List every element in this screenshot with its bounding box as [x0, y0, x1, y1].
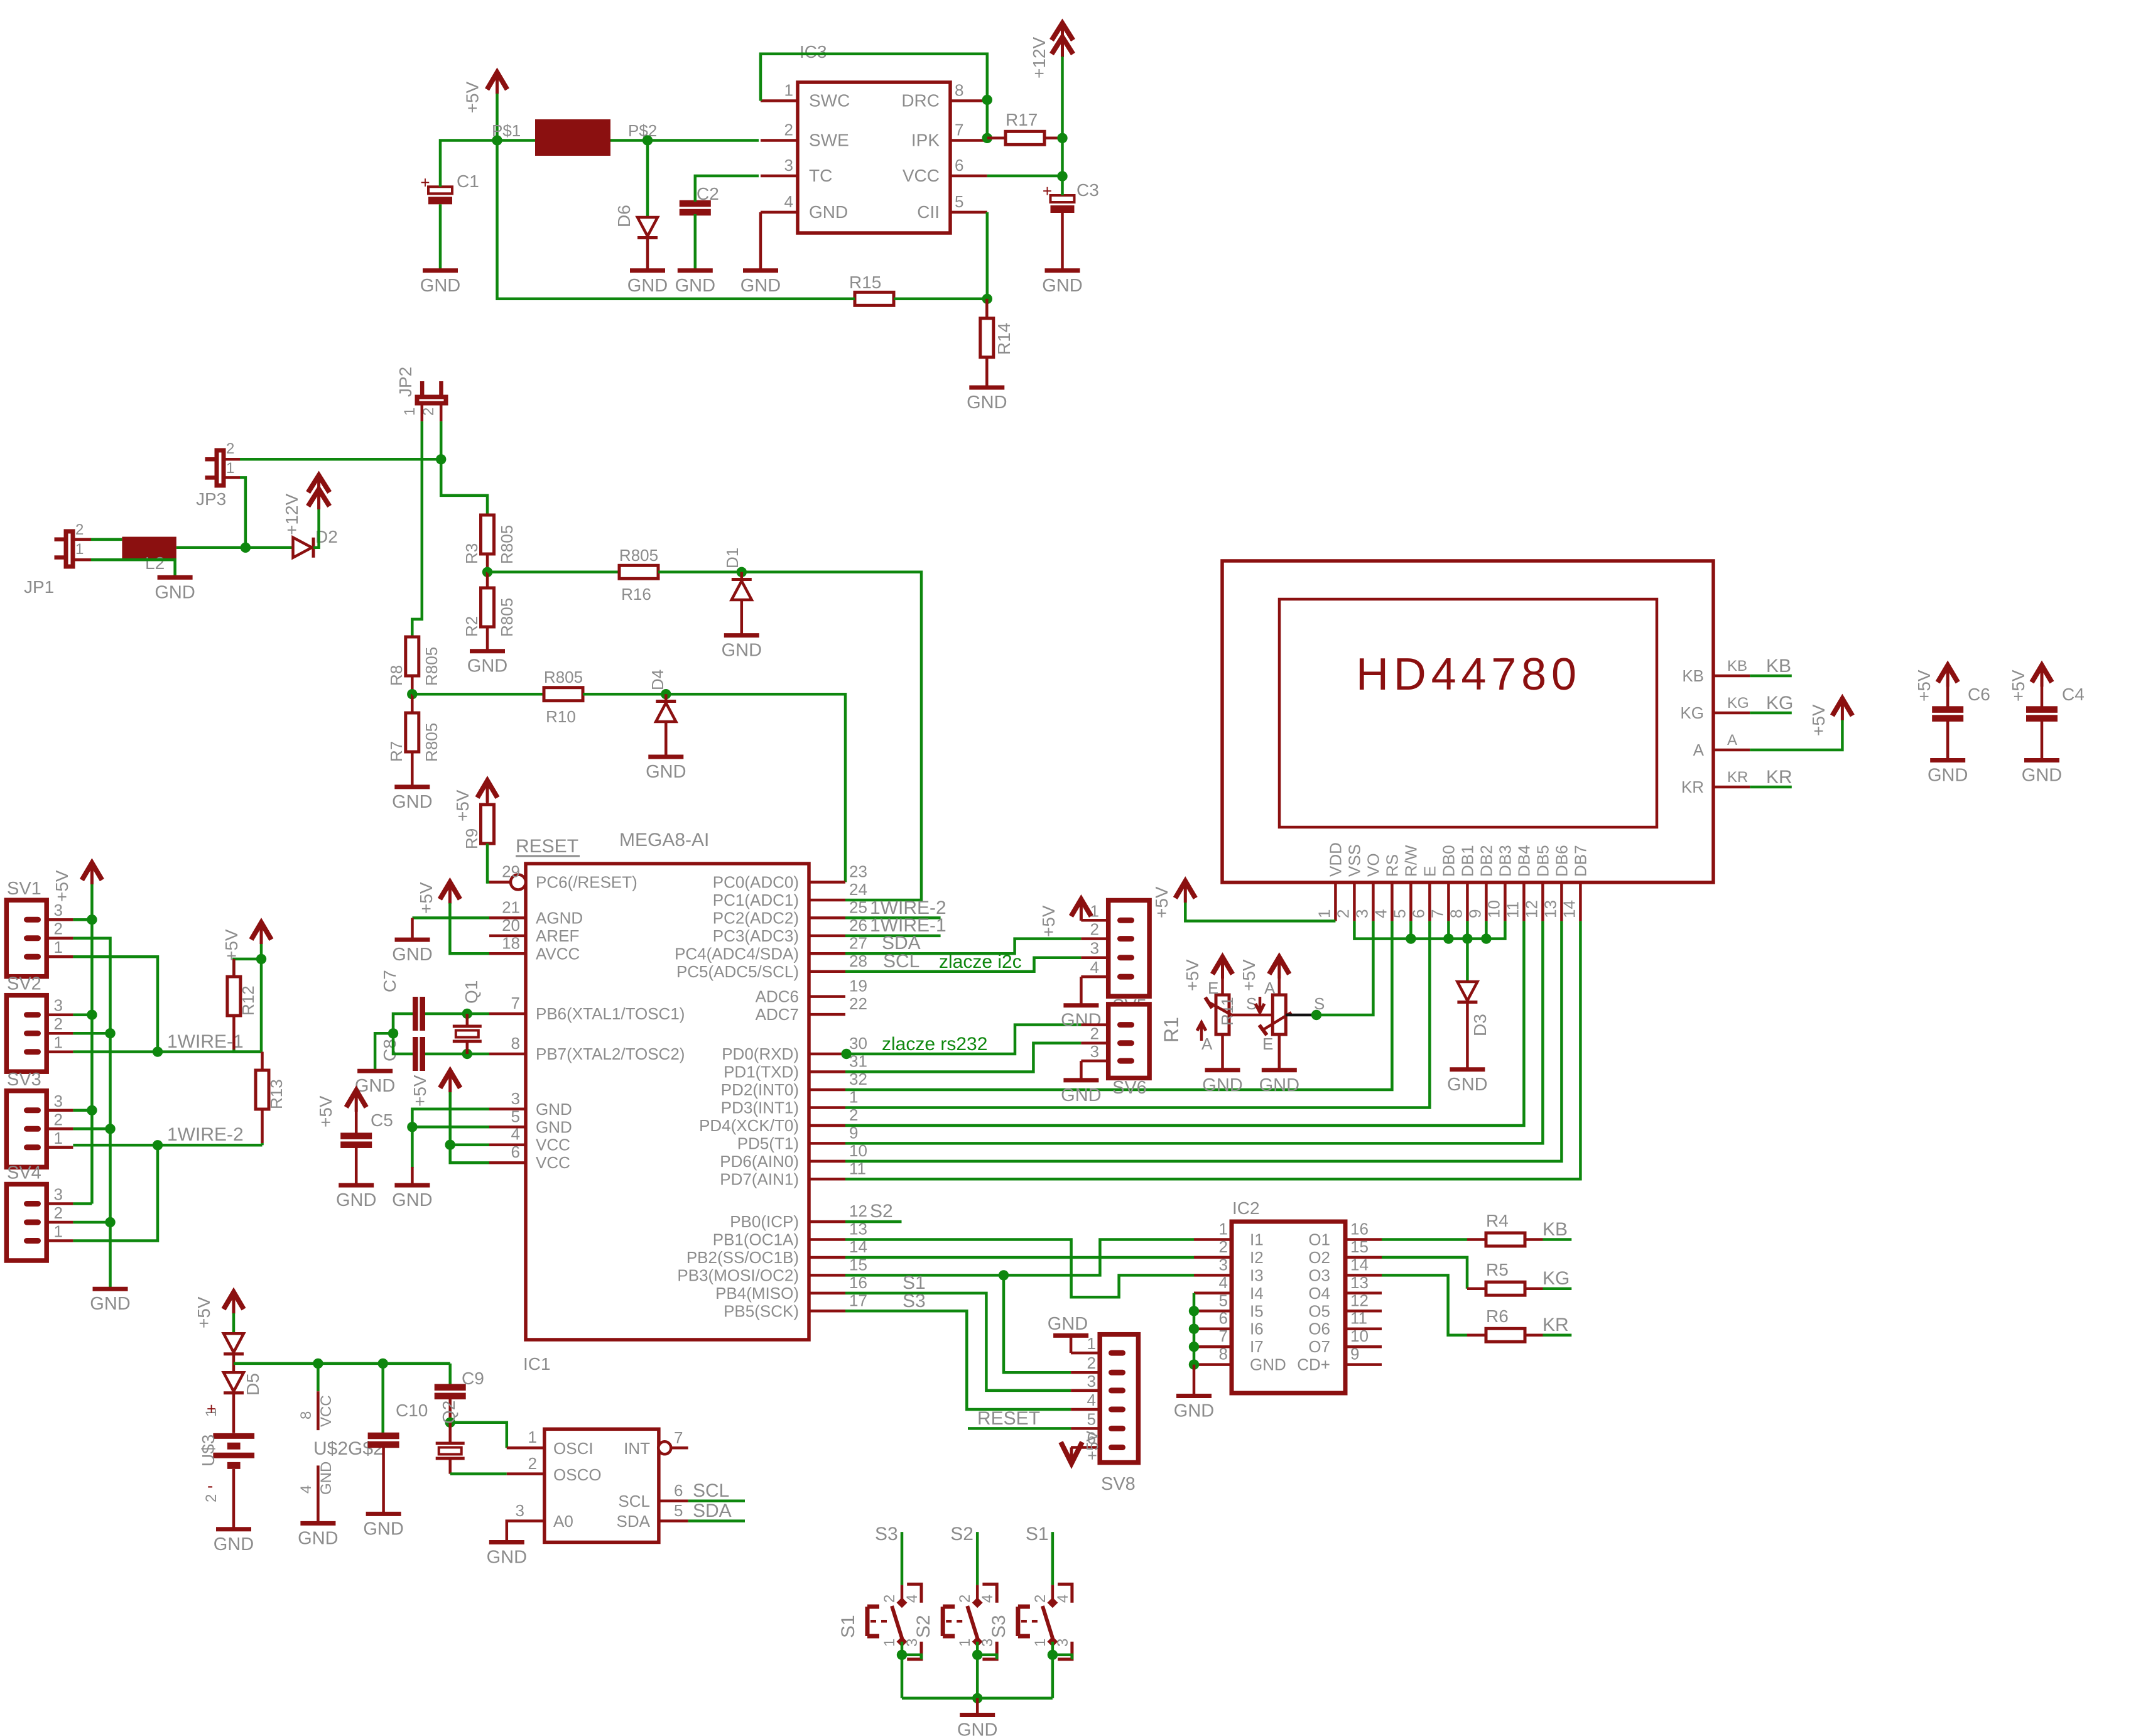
+5V arrow for AVCC — [448, 882, 452, 904]
diode D4 (cathode up) — [664, 694, 668, 702]
wire +5V to AVCC pin 18 — [450, 903, 489, 953]
svg-text:PB4(MISO): PB4(MISO) — [715, 1284, 799, 1303]
wire rail to C3 — [1061, 176, 1064, 195]
svg-text:DB0: DB0 — [1439, 845, 1458, 877]
switch S1 pin 3 bracket — [907, 1642, 921, 1659]
MEGA8 pin 13 PB1(OC1A) — [809, 1238, 845, 1241]
switch S3 wire to bus — [1051, 1655, 1055, 1698]
wire PD3 pin 1 to LCD E — [845, 921, 1429, 1107]
inductor L2 (solid) — [122, 537, 176, 559]
IC IC3 (MC34063) body — [798, 82, 950, 233]
svg-text:5: 5 — [955, 192, 963, 211]
SV6 pin 2 — [1117, 1040, 1134, 1046]
ground below R1 — [1205, 1068, 1240, 1072]
svg-text:15: 15 — [1350, 1237, 1369, 1256]
IC2 pin 16 O1 — [1345, 1238, 1382, 1241]
wiper wire R1 to node (black segment) — [1232, 1014, 1272, 1017]
+5V arrow for LCD VDD — [1184, 881, 1187, 903]
svg-text:6: 6 — [511, 1142, 520, 1161]
svg-text:GND: GND — [467, 656, 507, 676]
resistor R7 (R805) — [406, 713, 419, 752]
svg-text:R8: R8 — [387, 665, 406, 686]
svg-text:R805: R805 — [544, 668, 583, 686]
resistor R4 — [1486, 1233, 1525, 1246]
net label KB at LCD — [1750, 675, 1792, 678]
svg-text:GND: GND — [967, 393, 1007, 413]
+5V arrow above D5 — [232, 1292, 236, 1313]
wire SV5 pin4 to GND — [1080, 977, 1083, 1004]
ground below R11 — [1262, 1068, 1297, 1072]
svg-text:4: 4 — [784, 192, 793, 211]
svg-text:A: A — [1727, 732, 1737, 749]
net label S2 at PB0 — [845, 1220, 902, 1223]
svg-text:R6: R6 — [1486, 1306, 1509, 1326]
wire SV1 pin1 to 1WIRE-1 — [73, 957, 158, 1051]
svg-text:I4: I4 — [1250, 1284, 1264, 1303]
net label KR at LCD — [1750, 786, 1792, 789]
node IC2 GND — [1189, 1359, 1199, 1369]
wire C8 right to PB7 — [425, 1053, 489, 1056]
diode D5b — [224, 1372, 244, 1393]
svg-text:KB: KB — [1727, 658, 1747, 675]
net label KR at R6 — [1525, 1334, 1543, 1337]
svg-text:5: 5 — [674, 1501, 683, 1520]
node D4 — [661, 689, 671, 699]
svg-text:25: 25 — [849, 898, 867, 916]
wire +5V rail SV pins 3 — [90, 884, 94, 1204]
svg-text:VCC: VCC — [536, 1153, 570, 1172]
node I6 — [1189, 1324, 1199, 1334]
wire C4 to GND — [2041, 720, 2044, 759]
svg-text:1: 1 — [54, 1222, 63, 1241]
MEGA8 pin 25 PC2(ADC2) — [809, 916, 845, 920]
svg-text:OSCI: OSCI — [553, 1439, 594, 1458]
svg-text:10: 10 — [1484, 900, 1503, 918]
S pin arrow at R11 — [1259, 997, 1262, 1011]
SV3 pin2 wire — [73, 1127, 110, 1131]
ground below SV rail — [93, 1287, 128, 1291]
wire D6 to GND — [646, 239, 649, 269]
capacitor C8 — [413, 1037, 418, 1071]
svg-text:JP3: JP3 — [196, 489, 226, 509]
wire D3 to GND — [1466, 1003, 1469, 1068]
node SV4 pin2 — [105, 1217, 115, 1227]
wire SV2 pin1 1WIRE-1 row — [73, 1050, 262, 1053]
svg-text:-: - — [207, 1476, 213, 1495]
JP2 pin leads — [421, 403, 424, 421]
svg-text:O7: O7 — [1308, 1337, 1330, 1356]
switch S1 wire to bus — [901, 1655, 904, 1698]
power +5V arrow (top left) — [496, 72, 499, 94]
svg-text:6: 6 — [1409, 909, 1428, 918]
svg-text:O6: O6 — [1308, 1320, 1330, 1338]
diode D3 — [1457, 982, 1477, 1002]
svg-text:GND: GND — [318, 1462, 335, 1495]
svg-text:2: 2 — [1090, 1024, 1099, 1043]
SV8 pin 4 — [1109, 1407, 1125, 1413]
svg-text:PD0(RXD): PD0(RXD) — [722, 1044, 799, 1063]
switch S1 lever — [892, 1606, 903, 1640]
node D5/supply — [234, 1362, 450, 1365]
svg-text:C7: C7 — [380, 970, 399, 992]
svg-text:GND: GND — [90, 1294, 130, 1314]
IC2 pin 9 CD+ — [1345, 1363, 1382, 1366]
svg-text:R13: R13 — [267, 1079, 286, 1109]
connector SV3 — [6, 1091, 46, 1168]
net label KB at R4 — [1525, 1238, 1543, 1241]
svg-text:24: 24 — [849, 880, 867, 899]
resistor R14 — [980, 318, 994, 357]
svg-text:KR: KR — [1727, 769, 1748, 786]
node P$1 — [492, 135, 502, 145]
switch S2 pin 2 — [976, 1585, 979, 1603]
jumper JP2 — [417, 397, 446, 403]
svg-text:+5V: +5V — [2009, 670, 2028, 702]
wire PD6 pin 10 to LCD DB6 — [845, 921, 1561, 1161]
svg-text:R4: R4 — [1486, 1211, 1509, 1230]
svg-text:KG: KG — [1727, 695, 1749, 712]
wire L2 to D2 — [176, 546, 293, 550]
svg-text:R805: R805 — [422, 647, 441, 686]
SV8 pin 3 — [1109, 1387, 1125, 1393]
trimmer R11 wiper arrow — [1264, 1012, 1291, 1029]
svg-text:PB3(MOSI/OC2): PB3(MOSI/OC2) — [677, 1266, 799, 1284]
svg-text:3: 3 — [54, 901, 63, 920]
IC2 pin 6 I6 — [1194, 1327, 1232, 1330]
connector SV1 — [6, 900, 46, 977]
MEGA8 pin 18 AVCC — [489, 952, 526, 955]
IC2 pin 13 O4 — [1345, 1292, 1382, 1295]
svg-text:GND: GND — [646, 762, 686, 782]
svg-text:SV2: SV2 — [7, 974, 41, 994]
switch S3 node — [1048, 1650, 1058, 1660]
LCD pin A — [1713, 749, 1750, 752]
wire node to R12 — [234, 959, 261, 977]
wire C3 to GND — [1061, 213, 1064, 269]
wire R1 to GND — [1221, 1034, 1224, 1068]
net label S1 at PB4 — [845, 1293, 1071, 1391]
wire pin 4 branch — [450, 1143, 489, 1146]
net label S3 at PB5 — [845, 1311, 1071, 1409]
wire pin 5 to rail — [412, 1126, 489, 1129]
svg-text:1: 1 — [401, 408, 418, 416]
IC3 pin 4 GND — [761, 211, 798, 214]
node C10 — [378, 1359, 388, 1369]
net label KG at R5 — [1525, 1287, 1543, 1290]
IC2 pin 12 O5 — [1345, 1310, 1382, 1313]
svg-text:R3: R3 — [462, 543, 481, 564]
JP3 pin leads — [224, 458, 240, 461]
svg-text:S1: S1 — [838, 1615, 859, 1638]
SV3 pin3 wire — [73, 1109, 92, 1112]
wire bus to GND — [976, 1698, 979, 1713]
svg-text:2: 2 — [784, 121, 793, 139]
svg-text:7: 7 — [674, 1428, 683, 1447]
svg-text:R/W: R/W — [1401, 845, 1420, 877]
svg-text:SDA: SDA — [693, 1500, 732, 1521]
svg-text:AGND: AGND — [536, 908, 583, 927]
MEGA8 pin 17 PB5(SCK) — [809, 1310, 845, 1313]
MEGA8 pin 11 PD7(AIN1) — [809, 1178, 845, 1181]
node SV3 pin3 — [87, 1105, 97, 1115]
svg-text:R7: R7 — [387, 741, 406, 762]
switch common bus — [902, 1697, 1053, 1700]
wire R2 to GND — [486, 627, 489, 649]
+5V arrow at SV5 pin 1 — [1080, 899, 1083, 921]
svg-text:GND: GND — [420, 276, 460, 296]
svg-text:PB5(SCK): PB5(SCK) — [724, 1301, 799, 1320]
wire PD5 pin 9 to LCD DB5 — [845, 921, 1543, 1143]
svg-text:RESET: RESET — [977, 1408, 1040, 1429]
svg-text:1: 1 — [54, 1129, 63, 1147]
ground below C6 — [1930, 758, 1965, 762]
svg-text:3: 3 — [784, 156, 793, 175]
svg-text:11: 11 — [1503, 901, 1522, 918]
svg-text:SV6: SV6 — [1112, 1078, 1147, 1098]
+5V arrow above trimmer R1 — [1221, 957, 1224, 979]
node I5 — [1189, 1306, 1199, 1316]
wire node to IC1 pin 1 OSCI — [450, 1423, 507, 1448]
wire SCL pin 28 zlacze i2c to SV5 pin 3 — [845, 958, 1081, 972]
wire R11 to GND — [1278, 1034, 1281, 1068]
SV2 pin2 wire — [73, 1032, 110, 1035]
ground below battery — [216, 1527, 251, 1531]
IC1 pin 6 SCL — [659, 1499, 688, 1502]
wire JP2 pin1 down to R8 — [412, 421, 422, 636]
connector SV2 — [6, 995, 46, 1072]
node bus pin8 — [1462, 933, 1472, 943]
svg-text:2: 2 — [881, 1595, 898, 1603]
svg-text:GND: GND — [536, 1100, 572, 1119]
svg-text:VSS: VSS — [1345, 844, 1364, 877]
wire supply to C9 — [448, 1364, 452, 1386]
wire PD2 pin 32 to LCD RS — [845, 921, 1392, 1090]
wire C9 to Q2 node — [448, 1398, 452, 1423]
svg-text:C4: C4 — [2062, 685, 2085, 704]
switch S1 actuator — [867, 1607, 879, 1636]
svg-text:GND: GND — [1061, 1085, 1101, 1105]
svg-text:CD+: CD+ — [1297, 1355, 1330, 1374]
wire C7 right to PB6 — [425, 1012, 489, 1016]
svg-text:8: 8 — [955, 81, 963, 100]
SV1 pin3 wire — [73, 918, 92, 921]
IC2 pin 8 GND — [1194, 1363, 1232, 1366]
svg-text:+5V: +5V — [1239, 959, 1259, 991]
svg-text:GND: GND — [1250, 1355, 1286, 1374]
ground below L2 — [158, 575, 193, 580]
svg-text:3: 3 — [54, 1092, 63, 1110]
svg-text:C1: C1 — [457, 171, 479, 191]
ground below C2 — [678, 268, 713, 273]
wire SDA pin 27 to SV5 pin 2 — [845, 939, 1081, 954]
wire junction to R10 — [412, 693, 544, 696]
MEGA8 pin 8 PB7(XTAL2/TOSC2) — [489, 1053, 526, 1056]
svg-text:D5: D5 — [243, 1373, 263, 1396]
svg-text:R14: R14 — [994, 323, 1014, 355]
ground below D4 — [648, 755, 683, 759]
GND rail SV pins 2 — [73, 938, 110, 1287]
svg-text:S2: S2 — [913, 1615, 934, 1638]
wire O2 to R5 — [1382, 1257, 1467, 1289]
svg-text:GND: GND — [298, 1528, 338, 1548]
svg-text:SV8: SV8 — [1101, 1474, 1136, 1494]
diode D2 (points right) — [293, 538, 312, 558]
svg-text:+5V: +5V — [222, 929, 241, 961]
switch S1 node — [897, 1650, 907, 1660]
resistor R2 (R805) — [481, 588, 494, 627]
+5V arrow for LCD backlight A — [1841, 699, 1844, 720]
svg-text:R805: R805 — [619, 546, 658, 565]
node PD0 rs232 — [841, 1049, 851, 1059]
MEGA8 pin 23 PC0(ADC0) — [809, 881, 845, 884]
svg-text:GND: GND — [392, 945, 432, 965]
svg-text:GND: GND — [627, 276, 668, 296]
supply pin 4 GND of U$2G$2 — [317, 1465, 320, 1504]
wire R10 to D4 node — [583, 693, 666, 696]
wire R13 to 1WIRE-2 — [261, 1109, 264, 1143]
LCD pin 8 DB1 — [1466, 882, 1469, 921]
svg-text:KB: KB — [1543, 1219, 1568, 1240]
svg-text:4: 4 — [1055, 1595, 1071, 1603]
ground below C10 — [366, 1512, 401, 1516]
svg-text:1: 1 — [75, 541, 84, 558]
svg-text:GND: GND — [722, 641, 762, 661]
wire pin8 to bus — [1466, 921, 1469, 938]
svg-text:GND: GND — [487, 1548, 527, 1568]
svg-text:IC1: IC1 — [523, 1354, 551, 1374]
svg-text:4: 4 — [1371, 909, 1390, 918]
switch S2 pin 3 bracket — [982, 1642, 997, 1659]
ground at SV6 — [1063, 1078, 1098, 1082]
svg-text:S: S — [1246, 994, 1257, 1013]
svg-text:PB0(ICP): PB0(ICP) — [730, 1212, 799, 1231]
LCD pin 12 DB5 — [1541, 882, 1544, 921]
wire PB2 pin 14 to IC2 I2 — [845, 1256, 1194, 1259]
svg-text:A: A — [1693, 741, 1705, 759]
net label 1WIRE-2 at pin 25 — [845, 916, 941, 920]
svg-text:GND: GND — [2022, 766, 2062, 786]
svg-text:PD3(INT1): PD3(INT1) — [721, 1099, 799, 1117]
wire R3 to junction — [486, 554, 489, 572]
wire LCD A to +5V — [1750, 720, 1842, 750]
LCD pin KR — [1713, 786, 1750, 789]
svg-text:KG: KG — [1543, 1268, 1570, 1289]
svg-text:+5V: +5V — [316, 1095, 335, 1127]
MEGA8 pin 21 AGND — [489, 916, 526, 920]
wire PD0 zlacze rs232 to SV6 pin 1 — [847, 1025, 1082, 1054]
node JP2-2 / JP3-2 — [436, 454, 446, 464]
svg-text:C2: C2 — [697, 184, 719, 203]
SV8 pin 5 — [1109, 1426, 1125, 1431]
svg-text:5: 5 — [1219, 1291, 1228, 1310]
svg-text:MEGA8-AI: MEGA8-AI — [619, 830, 709, 850]
inductor L1 (solid) — [535, 119, 610, 156]
resistor R5 — [1486, 1282, 1525, 1295]
wire IC3 pin 4 to GND — [759, 212, 762, 269]
ground below IC2 pin 8 — [1176, 1394, 1212, 1398]
svg-text:14: 14 — [1350, 1255, 1369, 1274]
svg-text:S3: S3 — [989, 1615, 1009, 1638]
SV6 pin 1 — [1117, 1022, 1134, 1028]
svg-text:ADC7: ADC7 — [756, 1005, 799, 1024]
svg-text:4: 4 — [904, 1595, 921, 1603]
svg-text:+5V: +5V — [1152, 886, 1171, 918]
+5V arrow for VCC pins — [448, 1071, 452, 1092]
SV5 pin 1 — [1117, 918, 1134, 923]
IC2 pin 3 I3 — [1194, 1274, 1232, 1277]
LCD ground bus below pins — [1354, 921, 1505, 938]
svg-text:13: 13 — [1350, 1273, 1369, 1292]
LCD pin 14 DB7 — [1579, 882, 1582, 921]
ground below IC3 pin 4 — [743, 268, 778, 273]
node Q1 top — [462, 1009, 472, 1019]
node bus pin7 — [1443, 933, 1453, 943]
wire IC2 GND pin to ground — [1193, 1365, 1196, 1394]
wire battery to GND — [232, 1469, 236, 1527]
svg-text:I3: I3 — [1250, 1266, 1264, 1284]
resistor R12 — [227, 977, 241, 1016]
svg-text:1: 1 — [1032, 1639, 1049, 1647]
resistor R17 — [1006, 131, 1044, 144]
IC2 pin 10 O7 — [1345, 1345, 1382, 1348]
IC3 pin 8 DRC — [950, 99, 987, 102]
node D1 — [737, 567, 747, 577]
SV4 pin3 wire — [73, 1202, 92, 1205]
capacitor C1 — [428, 187, 452, 193]
node switch bus GND — [972, 1693, 982, 1703]
switch S3 pin 2 — [1051, 1585, 1055, 1603]
svg-text:2: 2 — [75, 521, 84, 538]
node P$2 — [643, 135, 653, 145]
node R3/R2/R16 — [482, 567, 492, 577]
svg-text:GND: GND — [1259, 1075, 1299, 1095]
wire R7 to GND — [411, 752, 414, 785]
svg-text:SDA: SDA — [617, 1512, 651, 1531]
svg-text:2: 2 — [54, 920, 63, 938]
svg-text:1: 1 — [528, 1428, 537, 1446]
wire PB1 pin 13 to IC2 I3 — [845, 1240, 1194, 1298]
MEGA8 pin 7 PB6(XTAL1/TOSC1) — [489, 1012, 526, 1016]
ground above SV8 pin 1 — [1053, 1333, 1088, 1338]
svg-text:2: 2 — [1219, 1237, 1228, 1256]
svg-text:PC6(/RESET): PC6(/RESET) — [536, 873, 637, 892]
+12V symbol (top) — [1061, 23, 1064, 57]
svg-text:O3: O3 — [1308, 1266, 1330, 1284]
wire R8 to junction — [411, 676, 414, 694]
svg-text:PB7(XTAL2/TOSC2): PB7(XTAL2/TOSC2) — [536, 1044, 685, 1063]
+5V arrow above C5 — [355, 1090, 358, 1112]
svg-text:R805: R805 — [497, 525, 516, 564]
wire C7 left to GND branch — [393, 1014, 413, 1054]
svg-text:GND: GND — [740, 276, 781, 296]
wire pin3 VO down to wiper — [1316, 921, 1373, 1015]
svg-text:SCL: SCL — [883, 951, 919, 972]
SV5 pin 3 — [1117, 955, 1134, 960]
capacitor C5 — [340, 1132, 372, 1139]
LCD pin 13 DB6 — [1560, 882, 1563, 921]
LCD pin KG — [1713, 712, 1750, 715]
svg-text:SWE: SWE — [809, 131, 849, 150]
svg-text:30: 30 — [849, 1034, 867, 1053]
svg-text:3: 3 — [1090, 939, 1099, 958]
IC IC1 body (PCF8583) — [545, 1429, 659, 1542]
net label KG at LCD — [1750, 712, 1792, 715]
switch S2 wire to bus — [976, 1655, 979, 1698]
svg-text:SV3: SV3 — [7, 1070, 41, 1090]
trimmer R11 — [1278, 979, 1281, 995]
MEGA8 pin 26 PC3(ADC3) — [809, 935, 845, 938]
svg-text:DB2: DB2 — [1477, 845, 1495, 877]
